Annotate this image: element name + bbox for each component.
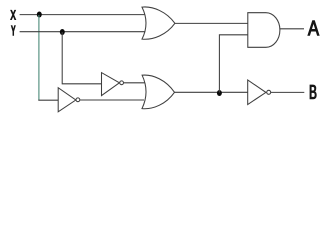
wire OR U2 output to inverter U6 [175,91,248,93]
wire inverter U6 output to B [271,91,305,93]
input label X [11,10,16,19]
OR gate U1 (top) [142,7,175,39]
inverter U4 (NOT, middle) [102,73,124,96]
OR gate U2 (bottom) [142,75,175,109]
inverter U6 (NOT, right) [248,80,271,105]
wire X branch vertical (teal) [38,15,40,100]
output label A [308,21,319,36]
wire AND gate U5 output to A [280,28,304,30]
node junction on Y wire [60,29,65,35]
wire Y branch down and right to inverter U4 [62,32,101,84]
wire junction up to AND gate U5 lower input [219,35,247,93]
node junction on OR U2 output wire [217,90,222,96]
wire inverter U3 output to OR gate U2 [80,99,144,101]
wire OR U1 output to AND gate U5 [175,22,248,24]
AND gate U5 [248,13,280,48]
wire inverter U4 output to OR gate U2 [124,82,145,84]
output label B [310,85,316,99]
input label Y [11,26,15,36]
node junction on X wire [37,12,42,18]
wire X branch horizontal to inverter U3 [38,99,58,101]
inverter U3 (NOT, lower left) [58,88,80,112]
wire Y input to OR gate U1 [20,31,146,33]
wire X input to OR gate U1 [20,14,145,16]
